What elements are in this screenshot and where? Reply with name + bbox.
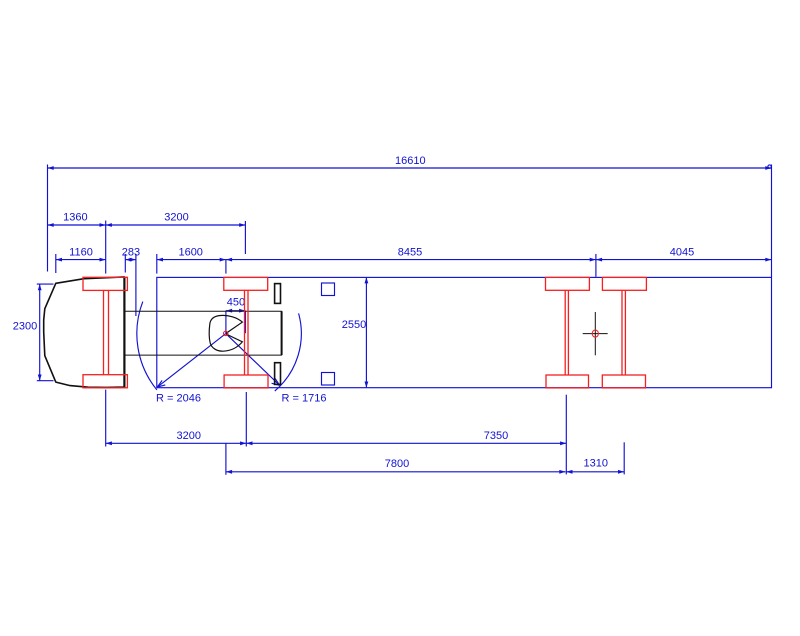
- extension x=595.9: [595, 254, 597, 277]
- extension x=225.9 upper: [225, 260, 227, 274]
- svg-text:1310: 1310: [584, 458, 608, 470]
- bogie centre mark vertical: [594, 312, 596, 355]
- black box upper: [275, 284, 281, 304]
- radius arrowhead R1716: [272, 378, 280, 385]
- node circle at 16610 right corner: [768, 165, 771, 168]
- trailer body outline: [157, 277, 772, 387]
- dimension 1160 line: [56, 259, 106, 261]
- rear axle 2 shaft: [622, 290, 625, 375]
- extension x=624.2: [623, 442, 625, 474]
- swept arc R2046: [137, 302, 157, 390]
- black vehicle parts: [44, 277, 608, 388]
- truck cab outline: [44, 277, 125, 388]
- chassis frame rear end: [281, 311, 283, 355]
- radius line R1716: [226, 334, 280, 386]
- crane pivot circle: [224, 331, 228, 335]
- svg-text:1600: 1600: [178, 246, 202, 258]
- 2300 top extension: [37, 283, 54, 285]
- extension x=105.7 bottom: [105, 390, 107, 447]
- dimension 1600 line: [157, 259, 226, 261]
- crane turret outline: [209, 315, 242, 351]
- second axle shaft: [245, 290, 249, 375]
- bogie centre circle: [592, 330, 598, 337]
- dimension 1310 line: [566, 471, 624, 473]
- front axle wheel top: [83, 277, 127, 290]
- svg-text:8455: 8455: [398, 246, 422, 258]
- radius line R2046: [157, 334, 226, 388]
- dimension 16610 line: [48, 167, 772, 169]
- extension x=125.3: [124, 254, 126, 273]
- rear axle 2 wheel top: [602, 277, 646, 290]
- svg-text:1160: 1160: [69, 246, 93, 258]
- swept arc R1716: [275, 313, 302, 391]
- rear axle 1 wheel top: [546, 277, 590, 290]
- dimension 2300 line: [39, 284, 41, 381]
- 2300 bottom extension: [37, 380, 54, 382]
- dimension 7800 line: [226, 471, 566, 473]
- svg-text:16610: 16610: [395, 155, 426, 167]
- radius arrowhead R2046: [157, 380, 165, 387]
- cab rear wall: [123, 277, 125, 388]
- axle extension x=245.4 lower: [244, 311, 246, 334]
- pivot extension x=225.9 lower: [225, 311, 227, 334]
- extension line right x=771.5: [771, 165, 773, 278]
- dimension texts: [13, 155, 694, 470]
- extension x=245.4 upper: [244, 221, 246, 254]
- second axle wheel top: [224, 277, 268, 290]
- red running gear: [83, 277, 646, 388]
- svg-text:3200: 3200: [164, 212, 188, 224]
- svg-text:2550: 2550: [342, 319, 366, 331]
- svg-text:R = 1716: R = 1716: [282, 392, 327, 404]
- rear axle 2 wheel bottom: [602, 375, 645, 388]
- extension line left x=47.5: [47, 165, 49, 272]
- rear axle 1 wheel bottom: [546, 375, 589, 388]
- dimension 283 line: [125, 259, 136, 261]
- extension x=55.8: [55, 254, 57, 273]
- extension x=225.9 bottom: [225, 443, 227, 475]
- chassis frame top rail: [124, 310, 282, 312]
- front axle shaft: [104, 290, 109, 374]
- extension x=135.9: [135, 254, 137, 316]
- extension x=156.8: [156, 254, 158, 274]
- dimension 8455 line: [226, 259, 596, 261]
- second axle wheel bottom: [224, 375, 268, 388]
- extension x=246.3 bottom: [245, 392, 247, 447]
- svg-text:450: 450: [227, 297, 245, 309]
- twist lock square bottom: [322, 373, 335, 386]
- svg-text:1360: 1360: [63, 212, 87, 224]
- svg-text:R = 2046: R = 2046: [156, 392, 201, 404]
- svg-text:7800: 7800: [385, 458, 409, 470]
- twist lock square top: [322, 283, 335, 296]
- extension x=105.7: [105, 221, 107, 274]
- svg-text:2300: 2300: [13, 321, 37, 333]
- extension x=566.3: [565, 395, 567, 475]
- dimension 2550 line: [365, 277, 367, 388]
- dimension 3200 bottom line: [106, 442, 247, 444]
- svg-text:283: 283: [122, 246, 140, 258]
- svg-text:7350: 7350: [484, 430, 508, 442]
- dimension arrowheads: [38, 166, 772, 474]
- svg-text:3200: 3200: [177, 430, 201, 442]
- bogie centre mark horizontal: [583, 333, 608, 335]
- dimension 1360/3200 line: [48, 224, 246, 226]
- front axle wheel bottom: [83, 375, 127, 388]
- dimension 7350 line: [246, 442, 566, 444]
- chassis frame bottom rail: [124, 354, 282, 356]
- dimension 4045 line: [596, 259, 772, 261]
- rear axle 1 shaft: [565, 290, 568, 375]
- svg-text:4045: 4045: [670, 246, 694, 258]
- dimension 450 line: [226, 310, 245, 312]
- black box lower: [275, 363, 281, 385]
